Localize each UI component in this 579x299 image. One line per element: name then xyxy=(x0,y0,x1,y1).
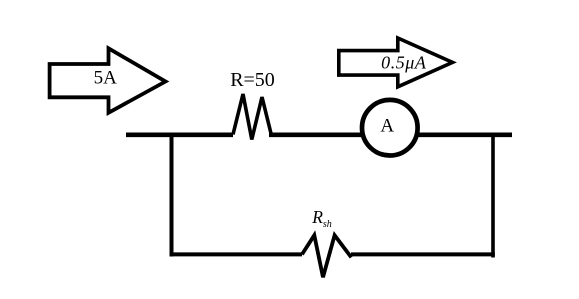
svg-text:0.5μA: 0.5μA xyxy=(381,53,427,73)
svg-text:5A: 5A xyxy=(94,67,118,88)
svg-text:A: A xyxy=(380,116,394,137)
svg-text:R=50: R=50 xyxy=(230,69,275,91)
